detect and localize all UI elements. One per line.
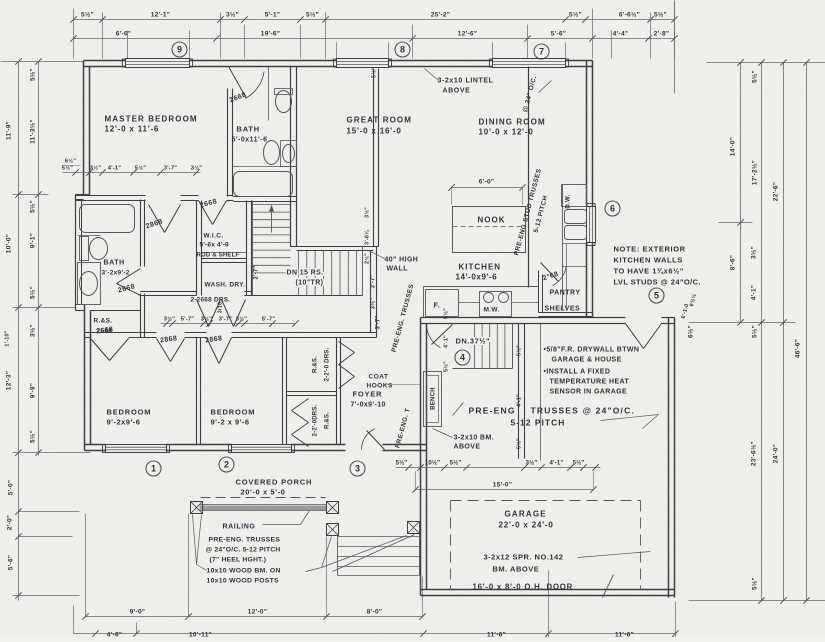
svg-text:7'-0x9'-10: 7'-0x9'-10 bbox=[351, 402, 386, 409]
svg-text:3-2x10 BM.: 3-2x10 BM. bbox=[454, 435, 495, 442]
svg-text:BEDROOM: BEDROOM bbox=[107, 408, 152, 417]
svg-text:R.&S.: R.&S. bbox=[313, 356, 319, 373]
svg-text:5'-0x11'-6: 5'-0x11'-6 bbox=[232, 137, 268, 144]
svg-text:4: 4 bbox=[460, 353, 465, 363]
svg-text:KITCHEN WALLS: KITCHEN WALLS bbox=[614, 256, 683, 265]
svg-text:BENCH: BENCH bbox=[431, 387, 437, 410]
svg-text:3½": 3½" bbox=[226, 11, 239, 19]
svg-text:5½": 5½" bbox=[751, 70, 759, 83]
svg-text:WASH. DRY.: WASH. DRY. bbox=[205, 282, 246, 289]
svg-text:8'-0": 8'-0" bbox=[367, 609, 383, 616]
svg-text:2-2'-0DRS.: 2-2'-0DRS. bbox=[313, 404, 319, 436]
svg-text:3½": 3½" bbox=[191, 165, 202, 172]
svg-text:3-2x12 SPR. NO.142: 3-2x12 SPR. NO.142 bbox=[484, 553, 564, 562]
svg-text:PRE-ENG: PRE-ENG bbox=[469, 406, 516, 416]
svg-text:2668: 2668 bbox=[97, 328, 113, 335]
svg-text:5'-6": 5'-6" bbox=[8, 555, 15, 571]
svg-text:14'-0x9'-6: 14'-0x9'-6 bbox=[456, 273, 498, 282]
svg-text:5½": 5½" bbox=[81, 11, 94, 19]
svg-text:5½": 5½" bbox=[751, 577, 759, 590]
svg-text:5½": 5½" bbox=[573, 460, 585, 467]
svg-text:12'-0 x 11'-6: 12'-0 x 11'-6 bbox=[105, 125, 160, 134]
svg-text:(7" HEEL HGHT.): (7" HEEL HGHT.) bbox=[210, 557, 267, 564]
svg-text:PRE-ENG. TRUSSES: PRE-ENG. TRUSSES bbox=[209, 537, 281, 544]
svg-text:DINING ROOM: DINING ROOM bbox=[479, 118, 546, 127]
svg-text:11'-9": 11'-9" bbox=[6, 121, 13, 140]
svg-text:5'-0": 5'-0" bbox=[8, 480, 15, 496]
svg-text:14'-0": 14'-0" bbox=[730, 137, 737, 156]
svg-text:3½": 3½" bbox=[526, 460, 538, 467]
svg-text:20'-0 x 5'-0: 20'-0 x 5'-0 bbox=[241, 488, 286, 497]
svg-text:1'-10": 1'-10" bbox=[5, 330, 11, 346]
svg-text:2-2'-0 DRS.: 2-2'-0 DRS. bbox=[325, 348, 331, 382]
svg-text:DN.37½": DN.37½" bbox=[456, 337, 491, 346]
svg-text:10x10 WOOD BM. ON: 10x10 WOOD BM. ON bbox=[207, 568, 281, 575]
svg-text:11'-6": 11'-6" bbox=[615, 632, 634, 638]
svg-text:10½": 10½" bbox=[425, 460, 440, 467]
svg-text:5½": 5½" bbox=[135, 165, 146, 172]
svg-text:4'-6": 4'-6" bbox=[107, 632, 123, 638]
svg-text:DN 15 RS.: DN 15 RS. bbox=[287, 270, 324, 277]
svg-text:5½": 5½" bbox=[516, 345, 523, 356]
svg-text:6'-6": 6'-6" bbox=[116, 31, 132, 38]
svg-text:5½": 5½" bbox=[654, 11, 667, 19]
svg-text:2-2668 DRS.: 2-2668 DRS. bbox=[191, 297, 231, 304]
svg-text:3/16: 3/16 bbox=[218, 302, 224, 314]
svg-text:5½": 5½" bbox=[371, 67, 378, 78]
svg-text:6½": 6½" bbox=[687, 325, 695, 338]
svg-text:5½": 5½" bbox=[396, 460, 408, 467]
svg-text:TEMPERATURE HEAT: TEMPERATURE HEAT bbox=[550, 379, 630, 386]
svg-text:COAT: COAT bbox=[369, 374, 389, 381]
svg-text:5'-6": 5'-6" bbox=[551, 31, 567, 38]
svg-text:19'-6": 19'-6" bbox=[261, 31, 280, 38]
svg-text:5: 5 bbox=[654, 291, 659, 301]
svg-text:NOTE: EXTERIOR: NOTE: EXTERIOR bbox=[614, 245, 686, 254]
svg-text:6'-0": 6'-0" bbox=[479, 179, 495, 186]
svg-text:2½": 2½" bbox=[364, 253, 371, 264]
svg-text:5½": 5½" bbox=[443, 308, 450, 319]
svg-text:3½": 3½" bbox=[370, 298, 377, 310]
svg-text:11'-3½": 11'-3½" bbox=[29, 119, 37, 144]
svg-text:SHELVES: SHELVES bbox=[545, 306, 581, 313]
svg-text:BATH: BATH bbox=[237, 125, 260, 134]
svg-text:GARAGE: GARAGE bbox=[505, 510, 547, 519]
svg-text:12'-6": 12'-6" bbox=[458, 31, 477, 38]
svg-text:3½": 3½" bbox=[164, 316, 175, 323]
svg-text:ROD & SHELF: ROD & SHELF bbox=[197, 253, 240, 259]
svg-text:FOYER: FOYER bbox=[353, 390, 383, 399]
svg-text:12'-3": 12'-3" bbox=[6, 371, 13, 390]
svg-text:COVERED PORCH: COVERED PORCH bbox=[236, 478, 313, 487]
svg-text:46'-6": 46'-6" bbox=[795, 339, 802, 358]
svg-text:3½": 3½" bbox=[90, 165, 101, 172]
svg-text:•5/8"F.R. DRYWALL BTWN: •5/8"F.R. DRYWALL BTWN bbox=[544, 347, 640, 354]
svg-text:D.W.: D.W. bbox=[566, 194, 572, 208]
svg-text:4'-4": 4'-4" bbox=[613, 31, 629, 38]
svg-text:F.: F. bbox=[434, 301, 441, 310]
svg-text:10'-0": 10'-0" bbox=[6, 234, 13, 253]
svg-text:(10"TR): (10"TR) bbox=[296, 280, 324, 287]
svg-text:6: 6 bbox=[610, 204, 615, 214]
svg-text:M.W.: M.W. bbox=[484, 307, 500, 314]
svg-text:17'-2½": 17'-2½" bbox=[751, 160, 759, 185]
svg-text:TO HAVE 1¾x6½": TO HAVE 1¾x6½" bbox=[614, 267, 684, 276]
svg-text:15'-0": 15'-0" bbox=[493, 482, 512, 489]
svg-text:12'-1": 12'-1" bbox=[151, 12, 170, 19]
svg-text:5'-1": 5'-1" bbox=[265, 12, 281, 19]
svg-text:5½": 5½" bbox=[443, 361, 450, 372]
svg-text:12'-0": 12'-0" bbox=[248, 609, 267, 616]
svg-text:5½": 5½" bbox=[29, 68, 37, 81]
svg-text:3-2x10 LINTEL: 3-2x10 LINTEL bbox=[438, 78, 494, 85]
svg-text:22'-0 x 24'-0: 22'-0 x 24'-0 bbox=[499, 521, 554, 530]
svg-text:3'-2x9'-2: 3'-2x9'-2 bbox=[102, 270, 130, 277]
svg-text:9'-0": 9'-0" bbox=[130, 609, 146, 616]
svg-text:2'-8": 2'-8" bbox=[654, 31, 670, 38]
svg-text:23'-6½": 23'-6½" bbox=[750, 441, 758, 466]
svg-text:6'-6½": 6'-6½" bbox=[619, 11, 640, 19]
svg-text:11'-6": 11'-6" bbox=[487, 632, 506, 638]
svg-text:3'-7": 3'-7" bbox=[376, 316, 382, 330]
svg-text:4'-1": 4'-1" bbox=[751, 285, 758, 301]
svg-text:5½": 5½" bbox=[306, 11, 319, 19]
svg-text:GARAGE & HOUSE: GARAGE & HOUSE bbox=[552, 357, 622, 364]
svg-text:4'-1": 4'-1" bbox=[444, 335, 450, 348]
svg-text:GREAT ROOM: GREAT ROOM bbox=[347, 116, 413, 125]
svg-text:MASTER BEDROOM: MASTER BEDROOM bbox=[105, 115, 198, 124]
svg-text:3'-7": 3'-7" bbox=[371, 275, 377, 289]
svg-text:HOOKS: HOOKS bbox=[367, 383, 394, 390]
svg-text:WALL: WALL bbox=[387, 266, 409, 273]
svg-text:15'-0 x 16'-0: 15'-0 x 16'-0 bbox=[347, 127, 402, 136]
svg-text:3½": 3½" bbox=[364, 207, 371, 218]
svg-text:4'-1": 4'-1" bbox=[517, 394, 523, 407]
svg-text:9'-1": 9'-1" bbox=[30, 233, 37, 249]
svg-text:2'-7": 2'-7" bbox=[254, 266, 260, 280]
svg-text:R.&S.: R.&S. bbox=[325, 412, 331, 429]
svg-text:3'-6¼: 3'-6¼ bbox=[364, 230, 371, 245]
svg-text:5'-7": 5'-7" bbox=[181, 317, 195, 323]
svg-text:9'-2 x 9'-6: 9'-2 x 9'-6 bbox=[211, 418, 250, 427]
svg-text:10x10 WOOD POSTS: 10x10 WOOD POSTS bbox=[207, 578, 280, 585]
svg-text:6½": 6½" bbox=[65, 158, 76, 165]
svg-text:5-12 PITCH: 5-12 PITCH bbox=[511, 418, 566, 428]
svg-text:2: 2 bbox=[224, 460, 229, 470]
svg-text:10'-11": 10'-11" bbox=[189, 632, 212, 638]
svg-text:16'-0 x 8'-0 O.H. DOOR: 16'-0 x 8'-0 O.H. DOOR bbox=[473, 583, 574, 592]
svg-text:5½": 5½" bbox=[569, 11, 582, 19]
svg-text:22'-6": 22'-6" bbox=[773, 182, 780, 201]
svg-text:W.I.C.: W.I.C. bbox=[204, 233, 224, 240]
svg-text:5½": 5½" bbox=[450, 460, 462, 467]
svg-text:5'-7": 5'-7" bbox=[262, 317, 276, 323]
svg-text:NOOK: NOOK bbox=[478, 216, 506, 225]
svg-text:1: 1 bbox=[151, 464, 156, 474]
svg-text:5½": 5½" bbox=[29, 200, 37, 213]
svg-text:3'-7": 3'-7" bbox=[164, 166, 178, 172]
svg-text:3½": 3½" bbox=[201, 316, 212, 323]
svg-text:5'-6x 4'-9: 5'-6x 4'-9 bbox=[200, 242, 229, 249]
svg-text:LVL STUDS @ 24"O/C.: LVL STUDS @ 24"O/C. bbox=[614, 278, 701, 287]
svg-text:5½": 5½" bbox=[516, 438, 523, 449]
svg-text:BEDROOM: BEDROOM bbox=[211, 408, 256, 417]
svg-text:2'-0": 2'-0" bbox=[7, 515, 14, 531]
svg-text:RAILING: RAILING bbox=[223, 524, 256, 531]
svg-text:9'-2x9'-6: 9'-2x9'-6 bbox=[107, 418, 141, 427]
svg-text:TRUSSES @ 24"O/C.: TRUSSES @ 24"O/C. bbox=[531, 406, 636, 416]
svg-text:5½": 5½" bbox=[29, 286, 37, 299]
svg-text:9: 9 bbox=[177, 45, 182, 55]
svg-text:3: 3 bbox=[355, 464, 360, 474]
svg-text:3'-7": 3'-7" bbox=[219, 317, 233, 323]
svg-text:BATH: BATH bbox=[104, 260, 125, 267]
svg-text:•INSTALL A FIXED: •INSTALL A FIXED bbox=[544, 369, 611, 376]
svg-text:25'-2": 25'-2" bbox=[431, 12, 450, 19]
svg-text:ABOVE: ABOVE bbox=[443, 88, 471, 95]
svg-text:5½": 5½" bbox=[751, 325, 759, 338]
svg-text:4'-1": 4'-1" bbox=[550, 461, 564, 467]
svg-text:PANTRY: PANTRY bbox=[550, 290, 581, 297]
svg-text:9'-8": 9'-8" bbox=[30, 383, 37, 399]
svg-text:7: 7 bbox=[539, 47, 544, 57]
svg-text:R.&S.: R.&S. bbox=[94, 318, 113, 325]
svg-text:BM. ABOVE: BM. ABOVE bbox=[493, 565, 540, 574]
svg-text:ABOVE: ABOVE bbox=[454, 444, 481, 451]
svg-text:8'-6": 8'-6" bbox=[730, 255, 737, 271]
svg-text:3½": 3½" bbox=[236, 316, 247, 323]
svg-text:@ 24"O/C. 5-12 PITCH: @ 24"O/C. 5-12 PITCH bbox=[206, 547, 281, 554]
svg-text:3½": 3½" bbox=[29, 324, 37, 337]
svg-text:KITCHEN: KITCHEN bbox=[459, 263, 502, 272]
svg-text:SENSOR IN GARAGE: SENSOR IN GARAGE bbox=[550, 389, 628, 396]
svg-text:5½": 5½" bbox=[29, 430, 37, 443]
svg-text:3½": 3½" bbox=[750, 246, 758, 259]
svg-text:10'-0 x 12'-0: 10'-0 x 12'-0 bbox=[479, 128, 534, 137]
svg-text:40" HIGH: 40" HIGH bbox=[385, 257, 419, 264]
svg-text:4'-1": 4'-1" bbox=[108, 166, 122, 172]
svg-text:8: 8 bbox=[400, 45, 405, 55]
svg-text:24'-0": 24'-0" bbox=[773, 444, 780, 463]
